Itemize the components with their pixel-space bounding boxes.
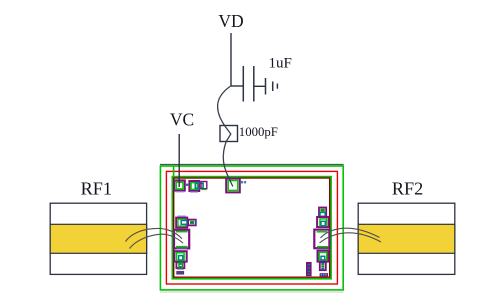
- footprint C2 landing (top center): [226, 179, 240, 193]
- right lower footprint 2: [320, 262, 326, 270]
- green stub connecting outer to inner green: [173, 166, 175, 177]
- svg-text:VD: VD: [218, 11, 243, 31]
- wire junction to 1000pF box (S-curve): [218, 86, 231, 126]
- board outline red rect: [166, 171, 337, 284]
- airline wire RF1 pin2: [130, 234, 184, 248]
- right lower footprint 1: [318, 251, 329, 262]
- wire VD to capacitor C1: [231, 85, 243, 87]
- airline wire RF2 pin2: [320, 233, 382, 243]
- teal ring overlapping pad B: [195, 183, 203, 188]
- RF1 label: [81, 179, 112, 199]
- wire 1000pF to footprint (S-curve): [223, 142, 233, 187]
- svg-text:VC: VC: [170, 110, 194, 130]
- footprint U1 pad B: [189, 181, 199, 192]
- airline wire RF1 pin1: [126, 228, 183, 241]
- left mid footprint pair: [176, 216, 196, 228]
- board outline gray bottom edge: [160, 291, 344, 293]
- teal marks right of C2 landing: [241, 181, 246, 183]
- svg-text:1uF: 1uF: [269, 56, 292, 72]
- left lower footprint 1: [174, 251, 186, 261]
- right upper footprint: [317, 217, 328, 227]
- teal dash between pads: [186, 184, 188, 186]
- wire through 1000pF box: [225, 126, 231, 142]
- purple ring right of pad B: [201, 182, 207, 190]
- svg-text:1000pF: 1000pF: [239, 125, 278, 139]
- right side vertical connector bar: [306, 262, 312, 276]
- wire VD vertical: [230, 33, 232, 86]
- capacitor C1 1uF plates: [243, 66, 254, 102]
- svg-text:RF1: RF1: [81, 179, 112, 199]
- value label 1uF: [269, 56, 292, 72]
- airline wire RF2 pin1: [321, 228, 380, 238]
- wire capacitor C1 to ground: [254, 85, 265, 87]
- board outline gray top edge: [160, 164, 344, 166]
- right bottom connector bar: [320, 273, 328, 276]
- board inner green rect: [172, 177, 331, 279]
- right top footprint small: [319, 208, 326, 217]
- capacitor C2 1000pF (box symbol): [220, 126, 238, 142]
- node VC label: [170, 110, 194, 130]
- ground: [266, 78, 278, 95]
- RF2 block: [358, 203, 455, 274]
- board inner maroon rect: [174, 178, 330, 277]
- footprint U1 pad A (VC landing): [174, 180, 185, 192]
- RF1 block: [50, 203, 146, 274]
- left bottom connector bar: [176, 270, 184, 275]
- board outline outer green rect: [160, 166, 343, 290]
- value label 1000pF: [239, 125, 278, 139]
- svg-text:RF2: RF2: [392, 179, 423, 199]
- node VD label: [218, 11, 243, 31]
- left lower footprint 2: [176, 262, 184, 268]
- right big footprint (RF2 wires landing): [314, 230, 329, 250]
- left big footprint (RF1 wires landing): [174, 230, 189, 250]
- RF2 label: [392, 179, 423, 199]
- wire VC vertical: [178, 134, 180, 187]
